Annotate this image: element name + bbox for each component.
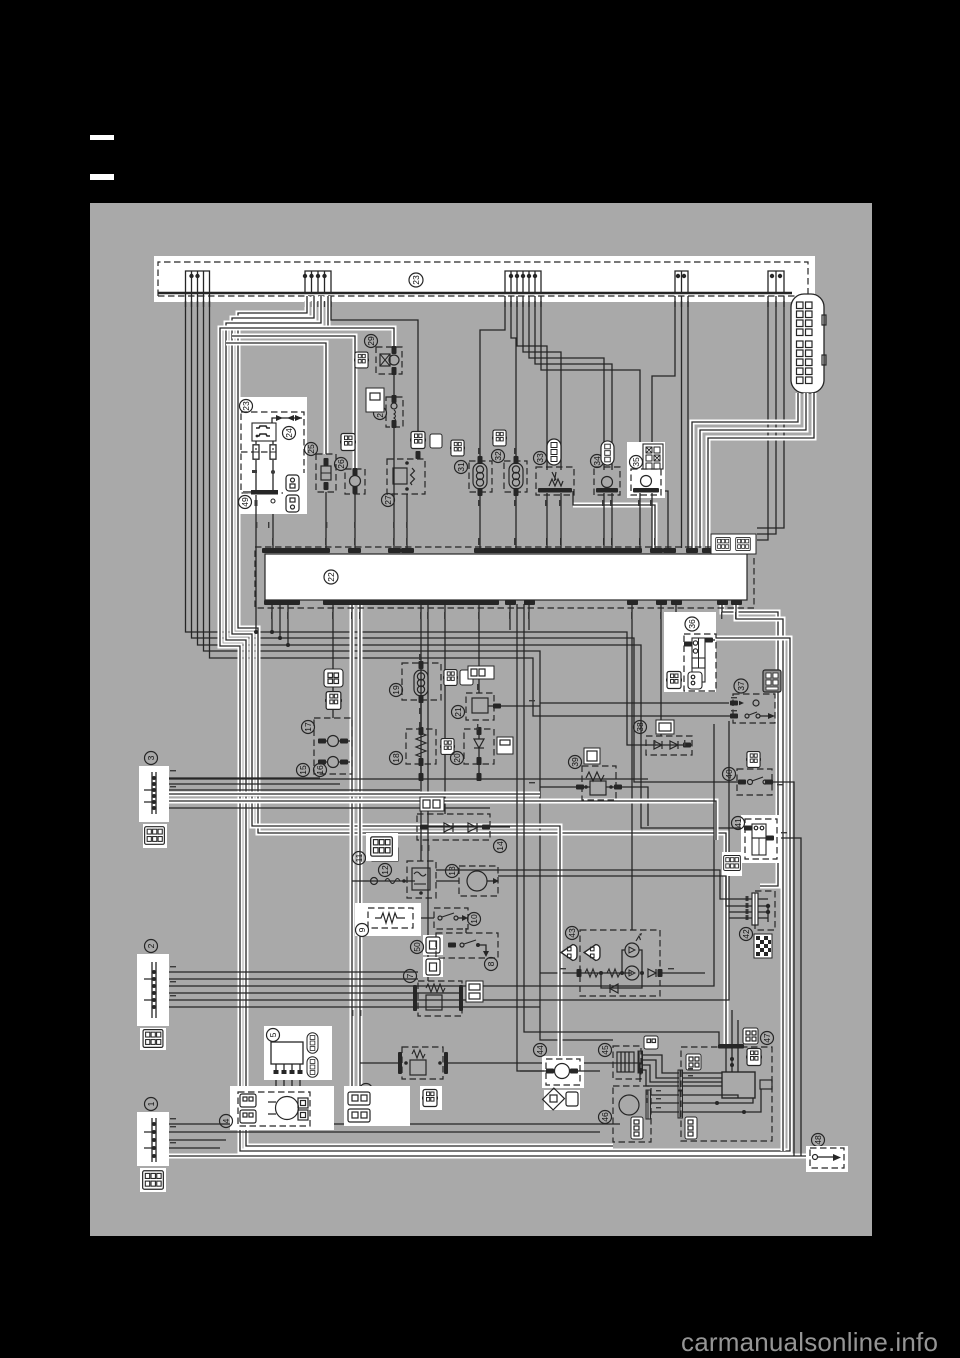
label box left of 28	[366, 388, 384, 412]
ECU top connector bar A	[262, 548, 330, 553]
connector icon above 27	[409, 432, 443, 449]
fuse element left	[253, 441, 259, 492]
svg-text:24: 24	[284, 428, 294, 438]
triangle connector icons left of 43	[561, 945, 600, 961]
bus tap group 5	[768, 271, 784, 294]
wire connector-3 cased run 2	[168, 801, 716, 840]
wire G1-3 (down + right + down to engine stop switch 41)	[198, 294, 746, 828]
ignition coil 32 dashed box	[504, 461, 527, 492]
fuse 25 dashed box	[316, 454, 336, 492]
wire joint-connector drop 2 nested corner into ECU top	[700, 393, 806, 548]
circled label 4	[220, 1115, 233, 1128]
diode 20 dashed box	[464, 729, 494, 764]
wire ECU bottom stubs	[510, 604, 529, 630]
connector 2 pin bar	[144, 962, 156, 1018]
wire starter button run	[498, 876, 752, 906]
antenna connector bar	[638, 1051, 643, 1073]
svg-text:49: 49	[240, 497, 250, 507]
starter label box (B/LG Gy)	[344, 1086, 410, 1126]
relay 6 internals	[398, 1050, 448, 1075]
engine stop switch 37 dashed box	[733, 694, 775, 723]
wire ECU bottom through diode block 14 to starter relay 12	[420, 604, 422, 861]
circled label 1	[145, 1098, 158, 1111]
relay 7 internals	[413, 984, 463, 1011]
open junction under battery	[271, 499, 275, 503]
circled label 41	[732, 817, 745, 830]
wire sensor 20 bottom run	[478, 764, 480, 779]
circled label 9	[356, 924, 369, 937]
engine stop switch 41 contact column	[744, 824, 774, 855]
wire horn 39 right stub	[619, 787, 648, 826]
circled label 50	[411, 941, 424, 954]
wire joint-connector drop 1 nested corner into ECU top	[692, 393, 798, 548]
circled label 6	[360, 1084, 373, 1097]
connector icons left of 29	[353, 352, 371, 368]
circled label 42	[740, 928, 753, 941]
oval connector above 34	[601, 441, 614, 465]
AC magneto 4 dashed box	[238, 1092, 310, 1126]
ECU (engine control unit) 22 dashed outline	[255, 547, 754, 608]
bus bar wire	[158, 292, 792, 294]
fuse 28 dashed box	[386, 397, 403, 427]
meter 43 internals	[577, 933, 663, 993]
wire engine stop 41 right stub	[777, 838, 801, 1156]
connector icon below-left of 41	[722, 852, 742, 876]
svg-text:19: 19	[391, 685, 401, 695]
diode block 38 label box	[656, 720, 674, 734]
wires 46 to joint bar 2	[650, 1095, 679, 1112]
wire G1-2 (down + right + down to start switch 40)	[192, 294, 740, 782]
wire G2-5 (elbow to relay 27 feed)	[331, 296, 418, 432]
sensor 21 label box	[468, 666, 494, 679]
svg-text:16: 16	[315, 765, 325, 775]
svg-text:43: 43	[567, 928, 577, 938]
resistor 9 dashed box	[368, 908, 413, 928]
clutch switch 10 dashed box	[434, 908, 468, 929]
bus tap group 3	[505, 271, 541, 294]
AC magneto 4 icons	[240, 1094, 256, 1123]
connector icons right of battery	[283, 473, 305, 514]
wire G2-3 cased (left trunk x226 down to bottom bundle y1140)	[226, 296, 613, 1146]
wire stub 37 row1 from trunk	[540, 702, 729, 704]
wire cased top-left run to bulb 26	[232, 336, 355, 469]
circled label 21	[452, 706, 465, 719]
wire G3-1 elbow to ignition coil 31	[480, 296, 505, 461]
starter cutoff 48 dashed box with arrow	[810, 1148, 844, 1168]
circled label 32	[492, 450, 505, 463]
connector 3 white patch	[139, 766, 169, 822]
circled label 26	[335, 458, 348, 471]
fuel pump 44 white patch	[542, 1056, 584, 1088]
svg-text:carmanualsonline.info: carmanualsonline.info	[681, 1327, 938, 1357]
connector 2 white patch	[137, 954, 169, 1026]
ECU top right pads	[686, 548, 714, 553]
svg-text:12: 12	[380, 865, 390, 875]
lamp 35 white patch	[627, 442, 665, 498]
oval connector above 33	[547, 439, 561, 465]
wire G1-4 (down + right + down mid-right trunk)	[204, 294, 614, 1040]
circled label 38	[634, 721, 647, 734]
wire G3-3 elbow to injector 33 left	[517, 296, 547, 470]
fuse 28 internals	[391, 395, 397, 428]
wire color labels misc ticks	[170, 448, 787, 1143]
svg-text:44: 44	[535, 1045, 545, 1055]
main switch 36 dashed box	[684, 634, 716, 691]
lamp 34 bulb on bar	[596, 477, 618, 549]
wire 26 down to ECU	[354, 494, 356, 548]
svg-text:31: 31	[456, 462, 466, 472]
wire G3-7 elbow to lamp 35	[541, 296, 640, 471]
wire G5-2 down right margin	[757, 296, 776, 534]
wire stub meter 43 left	[540, 972, 578, 974]
svg-text:17: 17	[303, 722, 313, 732]
svg-text:35: 35	[631, 457, 641, 467]
svg-text:13: 13	[447, 866, 457, 876]
ECU top pad 3	[401, 548, 414, 553]
engine stop switch 37 contacts	[730, 700, 775, 719]
fuse element right	[270, 441, 276, 492]
headlight block 15-17 connector icons	[324, 669, 344, 709]
junction dots ECU-left drops	[270, 630, 290, 647]
engine stop switch 41 dashed box	[745, 819, 777, 859]
frame/wire harness dashed box (top bus)	[154, 256, 815, 302]
wire G5-1 down right margin to ECU right	[757, 296, 768, 540]
connector icons right of 19	[442, 670, 473, 686]
wire stub horn 39 left	[540, 786, 578, 788]
ignition coil 32 winding	[509, 456, 523, 548]
bus tap group 1	[186, 271, 210, 294]
wire clutch 10 to 8	[465, 928, 467, 933]
svg-text:5: 5	[268, 1032, 278, 1037]
svg-text:45: 45	[600, 1045, 610, 1055]
wire G3-6 elbow to lamp 34 right	[535, 296, 612, 470]
headlight 15/16 dashed box	[314, 718, 352, 774]
connector 3 pin bar	[144, 772, 156, 814]
lamp 35 bulb on bar	[633, 476, 659, 549]
connector 1 white patch	[137, 1112, 169, 1166]
wire starter relay to connector 42	[436, 870, 752, 899]
starter motor 13 symbol	[467, 871, 499, 891]
circled label 5	[267, 1029, 280, 1042]
resistor 9 element	[375, 913, 405, 923]
immobilizer antenna 45 dashed box	[613, 1046, 641, 1079]
main fuse box 24 dashed	[241, 412, 304, 493]
svg-text:11: 11	[354, 853, 364, 862]
ignition coil 31 dashed box	[469, 461, 492, 492]
wire meter 43 right stub	[662, 972, 705, 974]
circled label 16	[314, 764, 327, 777]
immobilizer unit box	[722, 1072, 772, 1098]
rear brake switch 40 contacts	[738, 777, 773, 785]
label icons above joint bar	[686, 1054, 701, 1070]
ignition coil 31 winding	[473, 456, 487, 548]
circled label 33	[534, 452, 547, 465]
starter motor 13 dashed box	[459, 866, 498, 896]
circled label 49	[239, 496, 252, 509]
connector icon right of 18	[439, 739, 457, 755]
svg-text:7: 7	[405, 973, 415, 978]
svg-text:46: 46	[600, 1112, 610, 1122]
relay 7 circled label	[404, 970, 417, 983]
connector icon inside 36	[688, 672, 702, 689]
svg-text:42: 42	[741, 929, 751, 939]
top-left cropped text mark 1	[90, 135, 114, 140]
wire G4-2 to ECU top	[681, 296, 683, 548]
svg-text:26: 26	[336, 459, 346, 469]
arrow link at top of 24	[272, 415, 302, 423]
circled label 12	[379, 864, 392, 877]
pin column icon mid 47	[685, 1117, 697, 1139]
svg-text:20: 20	[452, 753, 462, 763]
wire cased injector return to ECU top	[573, 491, 655, 548]
pin grid icon below 42	[754, 934, 772, 958]
main switch 36 white patch	[664, 612, 716, 692]
wires joint bar 2 to unit	[683, 1089, 761, 1114]
circled label 19	[390, 684, 403, 697]
starter cutoff 48 white patch	[806, 1146, 848, 1172]
circled label 8	[485, 958, 498, 971]
diagram gray field	[90, 203, 872, 1236]
connector 42 dashed box	[755, 891, 775, 930]
svg-text:25: 25	[306, 444, 316, 454]
wires top bar down to unit	[726, 1048, 738, 1072]
wire G1-1 main fuse feed (down + right + down to diode block 38)	[186, 294, 647, 745]
circled label 20	[451, 752, 464, 765]
svg-text:18: 18	[391, 753, 401, 763]
horn 39 internals	[576, 772, 622, 795]
circled label 2	[145, 940, 158, 953]
lamp assembly 29 dashed box	[376, 347, 402, 374]
circled label 48	[812, 1134, 825, 1147]
resistor 18 zigzag	[416, 727, 426, 766]
svg-text:41: 41	[733, 818, 743, 828]
immobilizer system 47 dashed box	[681, 1047, 772, 1141]
starter relay 12 dashed box	[407, 861, 436, 898]
circled label 24	[283, 427, 296, 440]
wire G5-3 down right margin	[757, 296, 784, 528]
lamp 29 internals	[380, 346, 399, 375]
lamp 34 dashed box	[594, 467, 620, 495]
circled label 23 on bus	[409, 273, 423, 287]
svg-text:37: 37	[736, 681, 746, 691]
wire G4-1 elbow to lamp 35 right	[652, 296, 675, 471]
circled label 29	[365, 335, 378, 348]
wire ECU bottom cased pair to rectifier (right)	[358, 604, 363, 1088]
ECU top pad 4	[650, 548, 663, 553]
svg-text:36: 36	[687, 619, 697, 629]
wire battery positive down to ECU	[272, 510, 274, 548]
diode 50 icon boxes	[423, 935, 443, 977]
fuel pump 44 motor	[520, 1064, 600, 1079]
relay unit 19 dashed box	[402, 663, 441, 700]
svg-text:47: 47	[762, 1033, 772, 1043]
circled label 45	[599, 1044, 612, 1057]
ECU bottom pads	[505, 600, 742, 605]
bus tap group 4	[675, 271, 688, 294]
pin grid icon below connector 3	[143, 824, 167, 848]
ECU top pad 2	[388, 548, 401, 553]
wire bottom cased run to starter cutoff 48	[157, 1154, 810, 1159]
relay 6 dashed box	[402, 1047, 443, 1079]
main switch 36 contact block	[684, 638, 715, 683]
pin-matrix connector above 35	[643, 444, 663, 469]
connector icons below 44	[543, 1088, 580, 1110]
svg-text:2: 2	[146, 943, 156, 948]
AC magneto 4 white patch	[230, 1086, 334, 1130]
connector icon below 6	[420, 1086, 442, 1110]
connector icon above 26	[339, 434, 358, 451]
wire color labels under bus taps	[185, 301, 785, 307]
wire rear brake switch 40 right stub	[772, 782, 794, 1156]
pin grid icon below connector 1	[140, 1168, 166, 1192]
joint connector bar mid	[678, 1070, 683, 1090]
wire cased top-left run to lamp chain 29/28	[238, 328, 394, 347]
circled label 36	[685, 617, 699, 631]
lamp 35 dashed box	[631, 469, 661, 495]
wire ECU bottom to relay 19 and resistor 18	[168, 700, 648, 781]
svg-text:38: 38	[635, 722, 645, 732]
svg-text:40: 40	[724, 769, 734, 779]
relay 27 dashed box	[387, 459, 425, 494]
wire lamp35 return to ECU top	[661, 491, 668, 548]
circled label 15	[297, 764, 310, 777]
wire ECU bottom to sensor 21	[478, 604, 480, 693]
circled label 28	[374, 407, 387, 420]
wire ECU right staircase 2 cased (down right side to immobilizer 45)	[736, 604, 783, 1151]
engine stop switch 41 white patch	[741, 815, 781, 863]
wire 27 down to ECU	[406, 494, 408, 548]
headlight bulb hi	[318, 736, 350, 747]
ECU 22 white body	[265, 554, 747, 600]
rear brake switch 40 dashed box	[737, 769, 772, 795]
rectifier regulator 5 white patch	[264, 1026, 332, 1080]
svg-text:33: 33	[535, 453, 545, 463]
wire resistor 9 to clutch 10	[413, 917, 434, 919]
wire G2-4 cased (left trunk x220 down to bottom bundle y1148)	[220, 296, 786, 1151]
wire fuse 12 feed	[352, 880, 368, 882]
ECU wire color tick labels bottom	[271, 612, 736, 619]
pin grid icon below 14	[366, 833, 398, 861]
key cylinder 46 dashed box	[613, 1086, 651, 1142]
connector 1 pin bar	[144, 1118, 156, 1162]
svg-text:32: 32	[493, 451, 503, 461]
wire G3-5 elbow to lamp 34 left	[529, 296, 604, 470]
wire G4-3 to ECU top	[687, 296, 689, 548]
relay coil box in 24	[252, 423, 276, 441]
connector block B right of ECU	[711, 534, 756, 554]
joint connector bar 2	[678, 1091, 683, 1118]
circled label 25	[305, 443, 318, 456]
diode block 14 diodes	[420, 823, 510, 832]
bulb 26 dashed box	[345, 469, 365, 494]
diode block 38 dashed box	[646, 736, 692, 755]
wire G2-2 cased (left trunk x232 down to y826 right to sidestand relay region)	[232, 296, 560, 1062]
svg-text:3: 3	[146, 755, 156, 760]
wires top bar up	[732, 1010, 738, 1044]
fuel pump 44 dashed box	[546, 1059, 580, 1085]
circled label 10	[468, 913, 481, 926]
fuse 12 element	[368, 878, 415, 885]
wire battery R/L stub	[254, 495, 258, 634]
wire ECU bottom cased pair to rectifier (left)	[350, 604, 355, 1088]
svg-text:48: 48	[813, 1135, 823, 1145]
label box right of 7	[466, 981, 483, 1002]
wire connector-1 pin runs	[158, 1124, 620, 1148]
headlight bulb lo	[318, 757, 350, 768]
wire starter relay 6 left stub	[360, 1062, 399, 1064]
ECU top pad 1	[348, 548, 361, 553]
label icon above antenna	[644, 1036, 658, 1049]
AC magneto 4 connector squares	[298, 1098, 308, 1120]
svg-text:50: 50	[412, 942, 422, 952]
wire G2-1 cased (left trunk x238 down to y833 then right to immobilizer)	[238, 296, 726, 1044]
svg-text:29: 29	[366, 336, 376, 346]
wire G3-4 elbow to injector 33 right	[523, 296, 561, 470]
circled label 23	[240, 400, 253, 413]
joint connector block (right of bus)	[791, 294, 826, 393]
wire 42 stubs from switch trunk	[729, 912, 752, 918]
antenna wires staircase to joint bar	[642, 1055, 679, 1086]
circled label 34	[591, 455, 604, 468]
wire connector-3 cased run 1	[168, 792, 540, 797]
circled label 17	[302, 721, 315, 734]
wire ECU right staircase 1 cased (down right side to connector 42)	[722, 604, 778, 886]
wire ECU bottom to immobilizer top bar	[524, 604, 719, 1044]
fuse 11 label box	[372, 848, 398, 861]
ECU top connector bar B	[474, 548, 642, 553]
svg-text:9: 9	[357, 927, 367, 932]
battery block white patch	[239, 397, 307, 514]
svg-text:27: 27	[383, 495, 393, 505]
svg-text:4: 4	[221, 1118, 231, 1123]
svg-text:15: 15	[298, 765, 308, 775]
wire connector-2 pin runs	[158, 721, 729, 1007]
circled label 18	[390, 752, 403, 765]
circled label 35	[630, 456, 643, 469]
wire ECU bottom to diode block 38 top	[660, 604, 662, 736]
sidestand switch 8 contact	[448, 940, 489, 957]
ECU bottom connector bar D	[323, 600, 499, 605]
relay 19 winding	[414, 661, 428, 703]
starting circuit cutoff relay 7 dashed box	[418, 981, 462, 1016]
wire ECU bottom to starting circuit cutoff relay 7	[427, 604, 429, 981]
engine stop switch 37 circled label	[734, 679, 748, 693]
resistor 9 white patch	[355, 903, 421, 936]
top-left cropped text mark 2	[90, 174, 114, 180]
wires joint bar to immobilizer unit	[683, 1073, 722, 1086]
connector icon top right of 47	[743, 1028, 758, 1044]
sensor 21 body	[472, 698, 540, 713]
wire G3-2 elbow to ignition coil 32	[511, 296, 516, 461]
wire connector-3 pin runs	[158, 778, 490, 808]
AC magneto 4 generator symbol	[268, 1097, 299, 1120]
top connector bar of 47	[718, 1044, 744, 1049]
connector icon above 32	[491, 430, 509, 446]
horn 39 label box	[584, 748, 600, 764]
svg-text:1: 1	[146, 1101, 156, 1106]
clutch switch 10 contact	[438, 913, 468, 921]
svg-text:39: 39	[570, 757, 580, 767]
wire 28 down to ECU	[393, 427, 395, 548]
label box right of 20	[497, 737, 513, 754]
svg-text:23: 23	[411, 275, 421, 285]
wire ECU right staircase 3 cased (down to bottom bundle)	[715, 638, 790, 1151]
connector icon right of 47 bar	[745, 1049, 764, 1066]
circled label 39	[569, 756, 582, 769]
rectifier 5 body	[271, 1042, 303, 1074]
circled label 14	[494, 840, 507, 853]
diode block 38 diodes	[646, 741, 692, 749]
